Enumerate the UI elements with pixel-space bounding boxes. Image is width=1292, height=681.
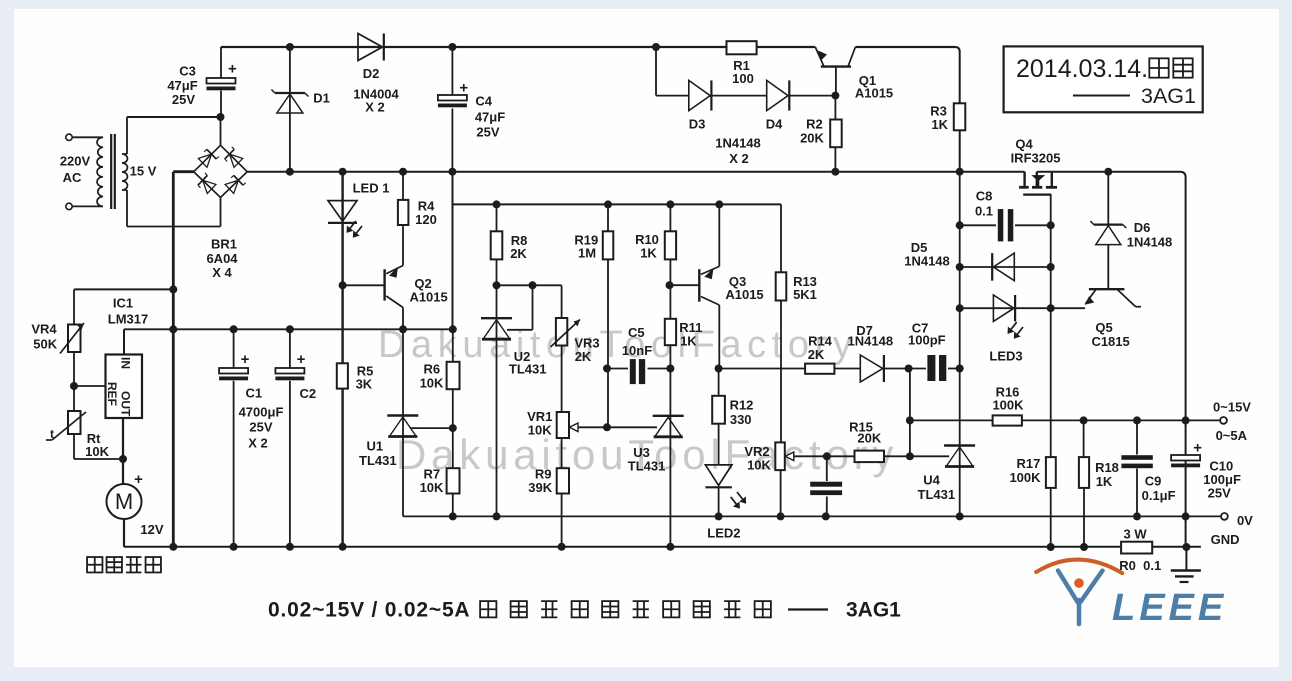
svg-text:+: + (1193, 440, 1202, 457)
svg-text:+: + (459, 79, 468, 96)
svg-text:+: + (241, 351, 250, 368)
svg-text:25V: 25V (476, 125, 499, 140)
svg-text:D2: D2 (363, 66, 380, 81)
svg-text:100pF: 100pF (908, 333, 946, 348)
svg-text:1K: 1K (680, 334, 697, 349)
svg-text:IN: IN (119, 357, 133, 369)
svg-text:1N4148: 1N4148 (848, 334, 894, 349)
svg-text:1M: 1M (578, 246, 596, 261)
svg-text:25V: 25V (249, 420, 272, 435)
svg-text:TL431: TL431 (628, 459, 666, 474)
svg-text:10K: 10K (420, 480, 444, 495)
svg-text:100: 100 (732, 71, 754, 86)
svg-text:C3: C3 (179, 64, 196, 79)
svg-text:100K: 100K (992, 398, 1024, 413)
svg-text:X 4: X 4 (212, 265, 232, 280)
svg-text:47μF: 47μF (475, 110, 505, 125)
svg-text:3K: 3K (356, 377, 373, 392)
svg-text:D3: D3 (689, 117, 706, 132)
svg-text:R12: R12 (730, 398, 754, 413)
svg-text:C1815: C1815 (1091, 334, 1129, 349)
svg-text:U1: U1 (366, 439, 383, 454)
svg-text:C5: C5 (628, 325, 645, 340)
svg-text:A1015: A1015 (855, 86, 893, 101)
svg-text:0.02~15V / 0.02~5A: 0.02~15V / 0.02~5A (268, 599, 470, 622)
svg-text:OUT: OUT (119, 391, 133, 417)
svg-text:+: + (297, 351, 306, 368)
svg-text:C8: C8 (976, 189, 993, 204)
svg-text:GND: GND (1211, 532, 1240, 547)
svg-text:1K: 1K (1096, 474, 1113, 489)
svg-text:+: + (228, 61, 237, 78)
svg-text:50K: 50K (33, 336, 57, 351)
svg-text:10K: 10K (420, 375, 444, 390)
svg-text:D6: D6 (1134, 220, 1151, 235)
svg-text:M: M (115, 489, 133, 514)
svg-text:C2: C2 (299, 386, 316, 401)
svg-text:1K: 1K (640, 245, 657, 260)
svg-text:LED3: LED3 (989, 349, 1022, 364)
svg-text:REF: REF (105, 382, 119, 406)
svg-text:IRF3205: IRF3205 (1011, 151, 1061, 166)
svg-text:2K: 2K (575, 349, 592, 364)
svg-text:D1: D1 (313, 91, 330, 106)
svg-text:0.1μF: 0.1μF (1142, 488, 1176, 503)
svg-text:t: t (50, 427, 54, 441)
svg-text:Q4: Q4 (1015, 137, 1033, 152)
svg-text:3AG1: 3AG1 (1141, 84, 1196, 108)
svg-text:BR1: BR1 (211, 237, 237, 252)
svg-text:20K: 20K (857, 431, 881, 446)
svg-text:AC: AC (63, 170, 82, 185)
svg-text:R3: R3 (930, 103, 947, 118)
svg-text:X 2: X 2 (365, 100, 385, 115)
svg-text:100K: 100K (1009, 470, 1041, 485)
svg-text:VR2: VR2 (744, 444, 769, 459)
svg-text:47μF: 47μF (167, 78, 197, 93)
svg-text:2014.03.14.: 2014.03.14. (1016, 55, 1148, 83)
svg-text:12V: 12V (140, 522, 163, 537)
svg-text:4700μF: 4700μF (239, 405, 284, 420)
svg-text:X 2: X 2 (729, 151, 749, 166)
svg-text:2K: 2K (510, 246, 527, 261)
svg-text:220V: 220V (60, 154, 91, 169)
svg-text:LM317: LM317 (108, 311, 148, 326)
svg-text:TL431: TL431 (359, 453, 397, 468)
svg-text:LED2: LED2 (707, 526, 740, 541)
svg-text:15 V: 15 V (130, 163, 157, 178)
svg-text:R2: R2 (806, 117, 823, 132)
svg-text:0V: 0V (1237, 513, 1253, 528)
svg-text:U4: U4 (923, 473, 940, 488)
svg-text:3AG1: 3AG1 (846, 599, 901, 622)
svg-text:3 W: 3 W (1124, 527, 1148, 542)
svg-text:TL431: TL431 (509, 362, 547, 377)
svg-text:X 2: X 2 (248, 436, 268, 451)
svg-text:C4: C4 (475, 94, 492, 109)
svg-text:5K1: 5K1 (793, 287, 817, 302)
svg-text:D4: D4 (766, 117, 783, 132)
svg-text:VR4: VR4 (31, 321, 57, 336)
svg-text:0.1: 0.1 (1143, 558, 1161, 573)
svg-text:6A04: 6A04 (206, 251, 238, 266)
svg-text:10K: 10K (85, 444, 109, 459)
svg-text:1N4148: 1N4148 (904, 254, 950, 269)
svg-text:0~15V: 0~15V (1213, 399, 1251, 414)
svg-text:C1: C1 (245, 386, 262, 401)
svg-text:+: + (134, 471, 143, 488)
svg-text:C9: C9 (1145, 474, 1162, 489)
svg-text:R9: R9 (535, 466, 552, 481)
svg-text:IC1: IC1 (113, 296, 133, 311)
svg-text:10nF: 10nF (622, 343, 652, 358)
svg-text:Q2: Q2 (414, 276, 431, 291)
svg-text:LED 1: LED 1 (353, 181, 390, 196)
svg-text:A1015: A1015 (409, 290, 447, 305)
svg-text:2K: 2K (808, 347, 825, 362)
svg-text:A1015: A1015 (725, 287, 763, 302)
svg-text:10K: 10K (528, 422, 552, 437)
svg-text:20K: 20K (800, 131, 824, 146)
svg-text:Q5: Q5 (1095, 320, 1112, 335)
svg-text:1N4148: 1N4148 (1127, 235, 1173, 250)
svg-text:R17: R17 (1016, 456, 1040, 471)
svg-text:39K: 39K (528, 480, 552, 495)
svg-text:0~5A: 0~5A (1216, 428, 1248, 443)
svg-text:0.1: 0.1 (975, 204, 993, 219)
svg-text:R18: R18 (1095, 460, 1119, 475)
svg-text:TL431: TL431 (918, 487, 956, 502)
svg-text:330: 330 (730, 412, 752, 427)
svg-text:LEEE: LEEE (1112, 587, 1227, 629)
svg-text:25V: 25V (1208, 486, 1231, 501)
svg-text:120: 120 (415, 212, 437, 227)
svg-text:1N4148: 1N4148 (715, 136, 761, 151)
svg-text:1K: 1K (931, 117, 948, 132)
svg-text:25V: 25V (172, 92, 195, 107)
svg-text:R6: R6 (423, 362, 440, 377)
svg-text:U3: U3 (633, 445, 650, 460)
svg-text:10K: 10K (747, 458, 771, 473)
